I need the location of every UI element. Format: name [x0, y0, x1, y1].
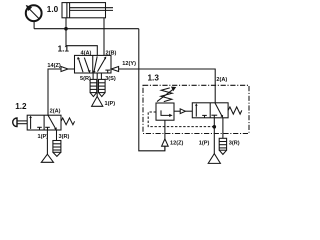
valve 1.1 port 1 wire — [96, 73, 98, 96]
valve 1.3 port 1 wire — [213, 118, 215, 154]
silencer on 3(S) — [99, 79, 106, 92]
push button of valve 1.2 — [17, 120, 27, 122]
air supply triangle 1(P) of valve 1.2 — [41, 154, 53, 162]
svg-text:1(P): 1(P) — [199, 141, 210, 147]
wire bus down to 12(Z) sensing — [139, 29, 165, 151]
air supply triangle 1(P) of valve 1.1 — [92, 96, 103, 106]
wire bus gauge to right — [34, 28, 139, 30]
svg-text:1.1: 1.1 — [58, 45, 70, 54]
svg-text:2(A): 2(A) — [50, 109, 61, 115]
valve 1.2 right square blocked T — [45, 126, 50, 128]
svg-text:5(R): 5(R) — [80, 76, 91, 82]
dashed pilot line of sequence valve — [148, 112, 214, 127]
assembly frame 1.3 — [143, 85, 249, 133]
valve 1.1 body — [75, 55, 112, 73]
svg-text:1(P): 1(P) — [105, 101, 116, 107]
valve 1.3 left square flow arrow — [195, 105, 197, 117]
silencer on 5(R) — [90, 79, 97, 92]
valve 1.3 right square blocked T — [211, 114, 217, 116]
sequence valve internal arrow — [161, 110, 170, 115]
valve 1.2 left square blocked T — [37, 126, 42, 128]
valve 1.3 3/2 body — [192, 103, 228, 118]
valve 1.3 left square blocked T — [202, 114, 207, 116]
spring of valve 1.3 — [228, 107, 242, 114]
pressure gauge — [26, 5, 42, 21]
cylinder 1.0 body — [62, 3, 106, 18]
junction dot cylinder left port — [64, 27, 68, 31]
silencer on 3(R) valve 1.3 — [219, 138, 226, 150]
valve 1.3 right square flow arrow — [215, 103, 222, 117]
pilot triangle 12(Z) — [162, 139, 169, 146]
cylinder 1.0 piston rod — [70, 7, 113, 9]
silencer on 3(R) valve 1.2 — [53, 141, 61, 153]
pilot arrow 14(Z) — [61, 67, 68, 72]
cylinder 1.0 piston — [66, 3, 68, 18]
svg-text:1.3: 1.3 — [148, 73, 160, 82]
valve 1.1 blocked port T — [105, 69, 110, 71]
svg-text:14(Z): 14(Z) — [47, 63, 61, 69]
svg-text:1.2: 1.2 — [15, 102, 27, 111]
wire cylinder right port to valve 1.1 port 2 — [103, 18, 105, 56]
valve 1.3 port 3 wire — [222, 118, 224, 139]
gauge stem wire — [33, 21, 35, 29]
valve 1.2 port 3 wire — [56, 130, 58, 141]
wire cylinder left port to valve 1.1 port 4 — [66, 18, 97, 56]
sequence valve square — [156, 103, 174, 120]
svg-text:1(P): 1(P) — [38, 134, 49, 140]
wire 12(Z) triangle to corner — [164, 146, 166, 151]
valve 1.1 port 3 wire — [100, 73, 102, 79]
svg-text:12(Y): 12(Y) — [122, 61, 136, 67]
wire valve 1.2 output 2(A) to pilot 14(Z) — [48, 69, 61, 115]
svg-text:3(R): 3(R) — [59, 134, 70, 140]
adjustable spring of sequence valve — [161, 88, 172, 102]
sequence valve bottom port wire — [164, 120, 166, 139]
valve 1.2 right square flow arrow — [48, 115, 56, 129]
svg-text:3(R): 3(R) — [229, 141, 240, 147]
valve 1.2 port 1 wire — [46, 130, 48, 154]
svg-text:2(B): 2(B) — [106, 51, 117, 57]
valve 1.1 left square flow arrows — [79, 59, 83, 72]
valve 1.1 port 5 wire — [92, 73, 94, 79]
valve 1.2 body — [27, 115, 61, 130]
junction dot on 1(P) line — [213, 125, 217, 129]
svg-text:4(A): 4(A) — [81, 51, 92, 57]
pilot arrow 12(Y) — [111, 67, 118, 72]
valve 1.1 right square flow arrows — [98, 58, 106, 72]
air supply triangle 1(P) of valve 1.3 — [208, 154, 220, 164]
svg-text:12(Z): 12(Z) — [170, 141, 184, 147]
wire valve 1.3 output 2(A) to pilot 12(Y) — [118, 69, 215, 103]
svg-text:1.0: 1.0 — [47, 5, 59, 14]
valve 1.2 left square flow arrow — [30, 117, 32, 129]
spring of valve 1.2 — [61, 118, 75, 125]
svg-text:3(S): 3(S) — [105, 76, 116, 82]
svg-text:2(A): 2(A) — [216, 77, 227, 83]
pilot link sequence valve to 3/2 valve — [174, 110, 180, 112]
